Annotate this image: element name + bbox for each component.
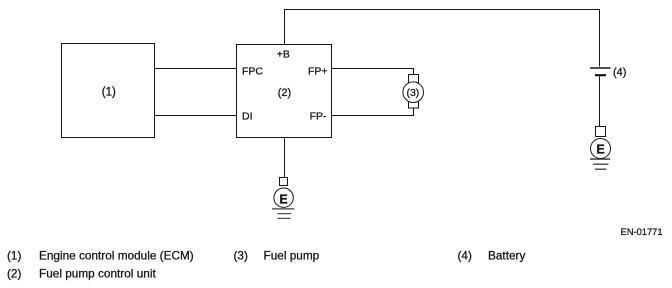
svg-text:FP-: FP- [310,111,327,123]
ground E2 circle [274,188,293,207]
ground E2 stroke 3 [278,217,291,219]
svg-text:(3): (3) [234,249,248,263]
fuel pump M (3) bottom terminal [409,100,419,108]
svg-text:E: E [279,192,287,206]
wire battery drop [599,10,601,67]
ground E1 stroke 3 [595,168,606,170]
ground E1 circle [591,139,611,159]
wire top bus [284,9,600,11]
svg-text:Battery: Battery [488,249,525,263]
svg-text:(3): (3) [406,87,419,99]
wire +B riser [284,10,286,45]
svg-text:(4): (4) [613,66,626,78]
svg-text:(2): (2) [7,266,21,280]
svg-text:+B: +B [277,48,290,60]
fuel pump control unit box U2 (2) [237,45,332,138]
svg-text:E: E [596,143,604,157]
svg-text:Fuel pump: Fuel pump [264,249,320,263]
svg-text:FP+: FP+ [308,65,328,77]
svg-text:(1): (1) [7,249,21,263]
svg-text:(1): (1) [102,87,116,99]
wire battery to ground [599,77,601,127]
svg-text:(4): (4) [458,249,472,263]
wire FP- vertical [413,108,415,116]
ground E2 terminal [280,178,288,186]
fuel pump M (3) body [403,82,424,103]
wire box2 to ground [284,138,286,178]
fuel pump M (3) top terminal [409,75,419,83]
ECM box U1 (1) [62,44,155,138]
battery (4) negative plate [595,74,606,76]
ground E1 stroke 2 [593,163,608,165]
battery (4) positive plate [590,67,611,69]
ground E2 stroke 2 [277,213,291,215]
wire FP+ vertical [413,69,415,76]
svg-text:DI: DI [242,111,253,123]
wire FP+ horizontal [331,68,414,70]
wire FP- horizontal [331,115,414,117]
ground E1 terminal [596,127,606,137]
svg-text:Fuel pump control unit: Fuel pump control unit [39,266,156,280]
svg-text:FPC: FPC [242,65,263,77]
ground E2 stroke 1 [272,208,294,210]
svg-text:(2): (2) [278,87,291,99]
svg-text:Engine control module (ECM): Engine control module (ECM) [39,249,194,263]
wire FPC (box1 to box2) [154,68,237,70]
wire DI (box1 to box2) [154,115,237,117]
svg-text:EN-01771: EN-01771 [621,227,663,237]
ground E1 stroke 1 [590,158,610,160]
